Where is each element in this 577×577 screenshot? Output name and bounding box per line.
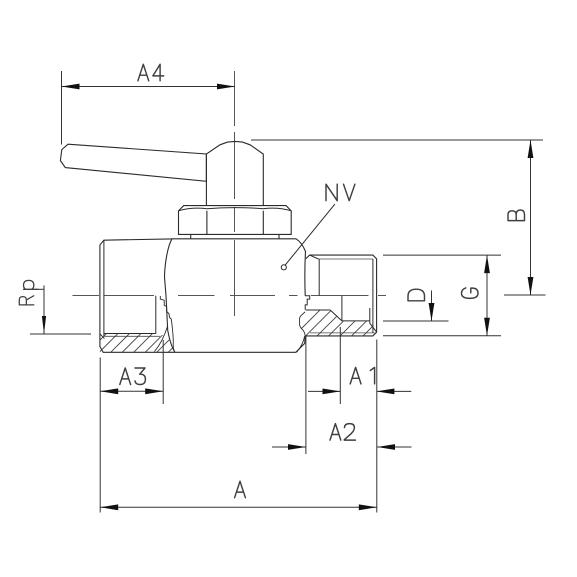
right port thread end chamfer <box>370 308 377 332</box>
NV vent hole circle <box>281 265 286 270</box>
right port outline <box>305 255 376 336</box>
centerline horizontal axis <box>73 295 387 297</box>
right port small bore line <box>306 309 331 311</box>
NV label <box>326 184 355 201</box>
dimension G <box>383 255 501 336</box>
hex nut facet lines <box>207 211 263 235</box>
dimension A <box>100 340 377 513</box>
right port thread minor line <box>342 320 370 322</box>
right port bore chamfer diag <box>330 310 342 321</box>
dimension A4 <box>62 71 236 145</box>
right port hex facet line <box>318 259 320 296</box>
right port bottom thread root line <box>310 332 375 334</box>
centerline vertical stem axis <box>234 71 236 316</box>
left thread runout zigzag <box>160 296 172 323</box>
left fillet curve inner <box>172 323 175 352</box>
left fillet curve <box>155 327 168 352</box>
NV leader line <box>285 204 335 265</box>
hex nut <box>179 206 292 235</box>
left port outer face double edge <box>100 239 175 352</box>
right junction outer bulge <box>300 312 306 336</box>
left port thread mouth chamfer <box>100 334 105 339</box>
stem cap <box>206 141 263 205</box>
right body-port junction zigzag <box>305 296 310 310</box>
left thread depth line <box>155 296 157 334</box>
right port bore step vertical <box>341 296 343 321</box>
handle lever <box>60 144 206 181</box>
dimension D <box>383 291 449 322</box>
dimension B <box>251 140 546 295</box>
dimension A2 <box>272 337 412 455</box>
valve body outline <box>165 239 306 352</box>
left port thread root line <box>104 335 160 337</box>
right port top-left chamfer diag <box>310 255 319 259</box>
dimension Rp <box>30 285 91 334</box>
dimension A3 <box>100 340 163 404</box>
left port bore line (Rp) <box>104 333 156 335</box>
right port top thread root line <box>318 258 373 260</box>
washer edges under nut <box>191 234 279 238</box>
right port inner right edge <box>372 259 374 333</box>
dimension A1 <box>308 327 411 404</box>
hex nut chamfer arcs <box>179 208 292 211</box>
right junction fillet curve <box>297 336 305 352</box>
